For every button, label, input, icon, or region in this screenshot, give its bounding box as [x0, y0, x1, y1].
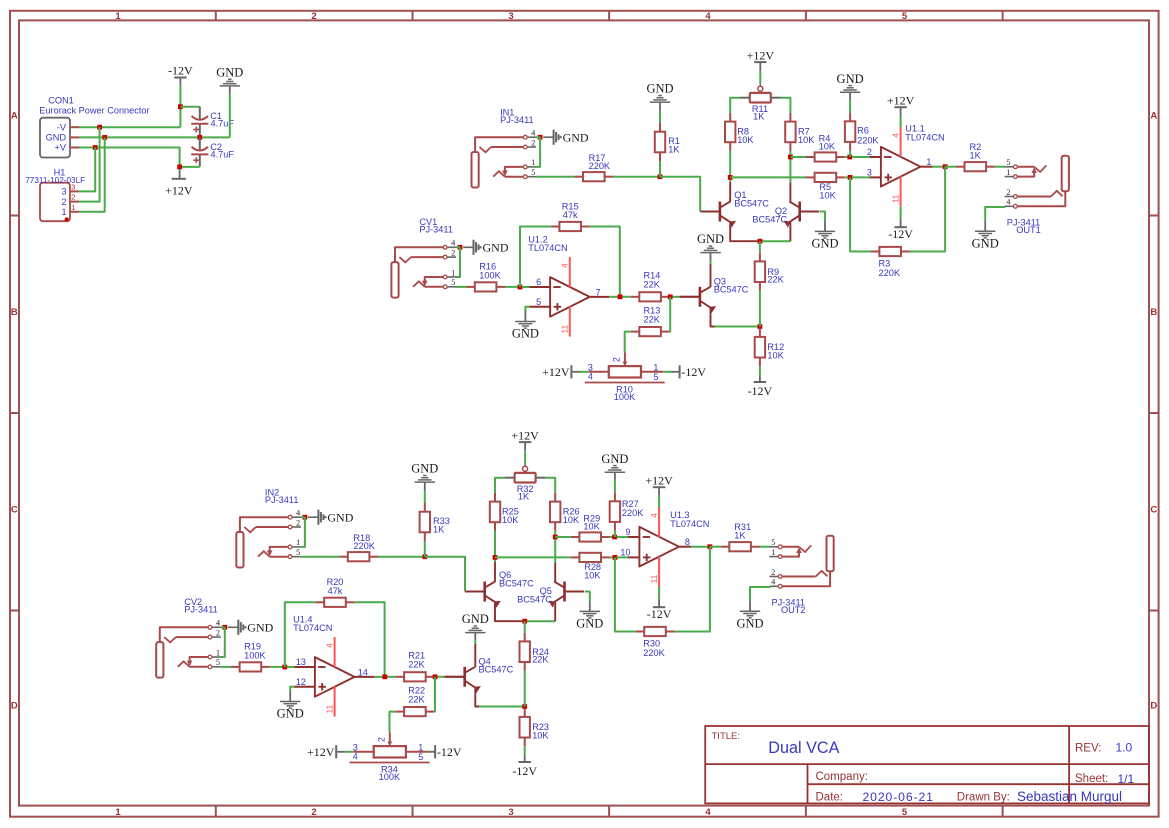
company label: [816, 771, 868, 783]
svg-text:Drawn By:: Drawn By:: [957, 792, 1010, 804]
power +12V left of R34: [307, 745, 345, 759]
wire IN1 pin4 to node: [536, 136, 540, 138]
gnd above R27: [601, 452, 628, 480]
potentiometer R34 100K: [350, 732, 430, 782]
wire U1.1 output net: [933, 166, 945, 168]
svg-text:22K: 22K: [644, 314, 661, 324]
resistor R31 1K: [721, 522, 760, 552]
wire GND to H1 pin1: [79, 137, 105, 211]
date label: [816, 790, 934, 804]
resistor R4 10K: [806, 133, 845, 161]
svg-text:100K: 100K: [479, 271, 501, 281]
resistor R8 10K: [725, 113, 754, 151]
wire U1.3 -12V wire: [658, 586, 660, 599]
svg-text:5: 5: [531, 168, 535, 177]
junction C1/C2 GND node: [197, 135, 202, 140]
svg-text:2: 2: [216, 628, 220, 637]
svg-text:GND: GND: [646, 82, 673, 96]
wire +V to H1 pin3: [79, 148, 95, 192]
gnd IN1: [543, 130, 589, 145]
svg-text:4: 4: [296, 509, 300, 518]
svg-text:REV:: REV:: [1075, 743, 1101, 755]
op-amp U1.1 TL074CN: [867, 124, 945, 207]
junction R21/Q4 node: [433, 674, 438, 679]
Q4 base pin: [444, 676, 464, 678]
wire pin - lead: [617, 536, 628, 538]
resistor R5 10K: [806, 173, 845, 201]
resistor R25 10K: [490, 493, 519, 531]
wire Q3 collector net: [710, 260, 712, 264]
svg-text:1: 1: [71, 203, 75, 212]
resistor R27 220K: [610, 493, 645, 531]
gnd above Q4: [462, 612, 489, 640]
svg-text:-12V: -12V: [748, 384, 773, 398]
svg-text:22K: 22K: [408, 660, 425, 670]
svg-text:Dual VCA: Dual VCA: [768, 739, 839, 757]
svg-text:22K: 22K: [408, 694, 425, 704]
power -12V below U1.3: [647, 599, 672, 621]
svg-text:6: 6: [536, 277, 541, 287]
wire C2 to +12V node: [180, 166, 200, 168]
op-amp U1.2 TL074CN: [528, 234, 609, 336]
junction R7/R4 node: [788, 155, 793, 160]
Q5 collector pin: [554, 563, 556, 582]
svg-text:5: 5: [536, 297, 541, 307]
svg-text:GND: GND: [483, 241, 509, 255]
svg-text:-12V: -12V: [888, 227, 913, 241]
svg-text:TL074CN: TL074CN: [528, 243, 567, 253]
rev label: [1075, 741, 1133, 755]
wire emitter rail: [758, 240, 791, 242]
resistor R26 10K: [550, 493, 580, 531]
wire R11 wiper wire: [759, 71, 761, 83]
wire feedback to pin +: [615, 557, 636, 631]
gnd symbol top-left: [216, 66, 243, 94]
wire R4 left: [790, 156, 806, 158]
Q6 emitter pin: [495, 602, 522, 621]
svg-text:-12V: -12V: [168, 64, 193, 78]
junction output node: [943, 164, 948, 169]
power +12V above U1.3: [645, 473, 673, 495]
svg-text:1: 1: [451, 268, 455, 277]
svg-text:2: 2: [61, 197, 66, 207]
power +12V below C2: [165, 172, 193, 198]
svg-text:2: 2: [71, 193, 75, 202]
wire R28 right: [610, 556, 615, 558]
wire R10 pin3 wire: [580, 371, 588, 373]
svg-text:GND: GND: [46, 133, 67, 143]
wire U1.4 out to R21: [385, 676, 396, 678]
trimmer R11 1K: [740, 84, 780, 122]
svg-text:1K: 1K: [970, 150, 982, 160]
svg-text:100K: 100K: [379, 772, 401, 782]
wire R9 top: [759, 241, 761, 253]
wire R32 wiper wire: [524, 451, 526, 463]
svg-text:1: 1: [926, 157, 931, 167]
wire pin - lead: [852, 156, 870, 158]
wire Q3 emitter net: [715, 326, 760, 328]
svg-text:GND: GND: [837, 72, 864, 86]
svg-text:3: 3: [867, 168, 872, 178]
svg-text:TL074CN: TL074CN: [293, 623, 332, 633]
svg-text:5: 5: [1006, 158, 1010, 167]
svg-text:-12V: -12V: [512, 764, 537, 778]
trimmer R32 1K: [505, 464, 545, 502]
power +12V left of R10: [542, 365, 580, 379]
svg-text:OUT1: OUT1: [1016, 225, 1041, 235]
resistor R23 10K: [520, 708, 550, 746]
junction R25/base node: [493, 555, 498, 560]
svg-text:14: 14: [358, 667, 368, 677]
wire Q5 collector net: [554, 537, 556, 563]
wire U1.1 -12V wire: [900, 206, 902, 219]
wire -12V to -V rail: [179, 86, 181, 128]
svg-text:1: 1: [216, 648, 220, 657]
resistor R2 1K: [956, 142, 995, 172]
svg-text:BC547C: BC547C: [479, 665, 514, 675]
wire -V to H1 pin2: [79, 127, 100, 201]
svg-text:4: 4: [353, 751, 358, 761]
Q6 collector pin: [494, 562, 496, 582]
svg-text:100K: 100K: [614, 392, 636, 402]
svg-text:1K: 1K: [518, 492, 530, 502]
wire R26 top: [545, 478, 555, 493]
svg-text:10K: 10K: [502, 515, 519, 525]
svg-text:5: 5: [771, 538, 775, 547]
junction GND branch node: [102, 135, 107, 140]
wire R20 left loop: [285, 602, 316, 667]
wire GND drop: [229, 94, 231, 138]
wire input node to Q6 base: [425, 557, 465, 592]
gnd at Q2 base: [811, 222, 838, 251]
wire CV2 pin1 net: [221, 627, 225, 657]
svg-text:22K: 22K: [767, 275, 784, 285]
resistor R22 22K: [396, 686, 435, 717]
header H1 77311-102-03LF: [25, 167, 85, 221]
gnd below U1.4: [277, 691, 304, 721]
svg-text:4: 4: [216, 619, 220, 628]
junction +V branch node: [93, 145, 98, 150]
junction -12V/C1 node: [178, 104, 183, 109]
svg-text:220K: 220K: [589, 161, 611, 171]
junction R14/Q3 node: [668, 294, 673, 299]
wire R6 bottom wire: [849, 151, 851, 157]
svg-text:10: 10: [620, 548, 630, 558]
wire emitter rail: [522, 620, 555, 622]
resistor R33 1K: [420, 503, 450, 541]
capacitor C2 4.7uF: [191, 137, 234, 166]
svg-text:2: 2: [531, 138, 535, 147]
gnd at Q5 base: [576, 602, 603, 631]
Q4 collector pin: [474, 644, 476, 667]
connector CV2 PJ-3411: [156, 597, 221, 678]
wire R14 node drop: [669, 297, 672, 332]
svg-text:10K: 10K: [584, 570, 601, 580]
svg-text:GND: GND: [277, 707, 304, 721]
Q2 emitter pin: [789, 222, 791, 241]
svg-text:4: 4: [531, 129, 535, 138]
junction C2/+12V node: [177, 165, 182, 170]
wire R18 to input node: [378, 556, 425, 558]
wire Q4 emitter net: [479, 706, 524, 708]
svg-text:Sebastian Murgul: Sebastian Murgul: [1017, 789, 1122, 804]
resistor R13 22K: [631, 306, 670, 337]
wire IN1 tip to R17: [536, 176, 574, 178]
wire feedback to pin +: [850, 177, 871, 251]
svg-text:1: 1: [531, 158, 535, 167]
svg-text:C: C: [1150, 504, 1157, 515]
resistor R17 220K: [574, 153, 613, 181]
resistor R1 1K: [655, 123, 681, 161]
svg-text:4: 4: [561, 263, 570, 268]
wire R29 left: [555, 536, 571, 538]
svg-text:5: 5: [902, 11, 908, 22]
svg-text:5: 5: [296, 548, 300, 557]
svg-text:1: 1: [771, 548, 775, 557]
svg-text:11: 11: [650, 574, 659, 583]
title block grid: [705, 726, 1149, 803]
svg-text:2: 2: [612, 357, 622, 362]
resistor R7 10K: [785, 113, 815, 151]
connector IN1 PJ-3411: [472, 108, 537, 188]
wire Q4 collector net: [474, 640, 476, 644]
svg-text:+12V: +12V: [307, 745, 335, 759]
svg-text:10K: 10K: [798, 135, 815, 145]
svg-text:13: 13: [296, 657, 306, 667]
Q2 collector pin: [789, 183, 791, 202]
svg-text:+12V: +12V: [747, 48, 775, 62]
gnd above R6: [837, 72, 864, 100]
junction -V branch node: [97, 125, 102, 130]
svg-text:12: 12: [296, 677, 306, 687]
svg-text:2: 2: [377, 737, 387, 742]
wire pin + lead: [852, 176, 870, 178]
op-amp U1.4 TL074CN: [293, 614, 374, 716]
svg-text:100K: 100K: [244, 651, 266, 661]
Q5 emitter pin: [554, 602, 556, 621]
wire Q6 collector net: [494, 557, 496, 562]
wire IN2 pin1 net: [301, 517, 305, 547]
gnd IN2: [308, 510, 354, 525]
svg-text:3: 3: [508, 11, 513, 22]
wire U1.3 +12V wire: [658, 496, 660, 508]
wire R6 top wire: [849, 100, 851, 113]
title label: [712, 731, 741, 742]
svg-text:R6: R6: [857, 126, 869, 136]
connector CV1 PJ-3411: [391, 217, 456, 298]
power -12V right of R34: [427, 745, 462, 759]
svg-text:1/1: 1/1: [1118, 772, 1135, 786]
junction emitter rail node: [758, 239, 763, 244]
svg-text:PJ-3411: PJ-3411: [184, 604, 218, 614]
wire CON1 GND net: [79, 136, 230, 138]
wire R29 right: [610, 536, 615, 538]
Q5 base wire: [585, 592, 590, 602]
junction R1 node: [658, 174, 663, 179]
wire R31 right: [760, 546, 771, 548]
gnd CV2: [228, 620, 274, 635]
svg-text:47k: 47k: [328, 586, 343, 596]
connector CON1 Eurorack Power Connector: [39, 96, 149, 158]
svg-text:A: A: [11, 111, 18, 122]
svg-text:2: 2: [451, 248, 455, 257]
wire R33 top wire: [424, 491, 426, 503]
wire R7 bottom: [789, 151, 791, 157]
svg-text:4.7uF: 4.7uF: [211, 149, 235, 159]
wire R24 bottom: [524, 671, 526, 707]
svg-text:2: 2: [771, 568, 775, 577]
junction pin6 node: [518, 285, 523, 290]
Q3 collector pin: [710, 264, 712, 287]
power -12V below U1.1: [888, 219, 913, 241]
svg-text:1K: 1K: [668, 144, 680, 154]
svg-text:1: 1: [115, 11, 121, 22]
wire base node to R28: [495, 556, 571, 558]
junction R6 node: [847, 155, 852, 160]
svg-text:TL074CN: TL074CN: [670, 519, 709, 529]
wire R1 bottom wire: [659, 161, 661, 177]
svg-text:11: 11: [561, 324, 570, 333]
wire CV1 pin1 net: [456, 247, 460, 277]
resistor R20 47k: [316, 577, 355, 607]
wire R26 bottom: [554, 531, 556, 537]
wire Q2 collector net: [789, 157, 791, 183]
Q3 emitter pin: [711, 308, 715, 327]
resistor R16 100K: [466, 262, 505, 292]
svg-text:10K: 10K: [767, 350, 784, 360]
svg-text:220K: 220K: [622, 508, 644, 518]
title Dual VCA: [768, 739, 839, 757]
svg-text:GND: GND: [972, 237, 999, 251]
svg-text:Date:: Date:: [816, 792, 844, 804]
svg-text:5: 5: [418, 752, 423, 762]
power -12V right of R10: [671, 365, 706, 379]
svg-text:220K: 220K: [353, 541, 375, 551]
svg-text:4: 4: [705, 11, 711, 22]
wire R10 pin1 wire: [664, 371, 671, 373]
Q3 base pin: [679, 296, 699, 298]
svg-text:D: D: [11, 701, 18, 712]
svg-text:4: 4: [705, 807, 711, 818]
svg-text:BC547C: BC547C: [752, 214, 787, 224]
svg-text:10K: 10K: [737, 135, 754, 145]
svg-text:1: 1: [115, 807, 121, 818]
wire pin - lead b: [522, 286, 530, 288]
svg-text:-12V: -12V: [681, 365, 706, 379]
wire R1 top wire: [659, 111, 661, 123]
svg-text:B: B: [11, 307, 18, 318]
wire R7 top: [780, 98, 790, 113]
svg-text:1K: 1K: [753, 112, 765, 122]
svg-text:+V: +V: [55, 143, 67, 153]
svg-text:1.0: 1.0: [1116, 741, 1133, 755]
resistor R3 220K: [871, 247, 910, 278]
gnd above Q3: [697, 232, 724, 260]
wire R27 bottom wire: [614, 531, 616, 537]
transistor Q3 BC547C: [680, 276, 748, 313]
svg-text:GND: GND: [216, 66, 243, 80]
wire R2 left: [945, 166, 956, 168]
svg-text:220K: 220K: [643, 648, 665, 658]
U1.4 + gnd wire: [290, 687, 294, 691]
junction R27 node: [612, 535, 617, 540]
wire feedback drop: [909, 167, 945, 252]
svg-text:GND: GND: [512, 327, 539, 341]
svg-text:C: C: [11, 504, 18, 515]
wire Q1 collector net: [729, 177, 731, 182]
wire R31 left: [710, 546, 721, 548]
svg-text:GND: GND: [327, 511, 353, 525]
gnd above R1: [646, 82, 673, 111]
svg-text:4: 4: [891, 133, 900, 138]
resistor R12 10K: [755, 328, 785, 366]
svg-text:BC547C: BC547C: [714, 285, 749, 295]
power -12V below R23: [512, 756, 537, 778]
gnd below OUT2: [736, 601, 763, 630]
resistor R18 220K: [339, 533, 378, 561]
svg-text:Sheet:: Sheet:: [1075, 773, 1108, 785]
svg-text:4: 4: [451, 239, 455, 248]
wire R33 bottom wire: [424, 541, 426, 557]
wire R9 bottom: [759, 291, 761, 327]
svg-text:2: 2: [1006, 188, 1010, 197]
junction R8/base node: [728, 175, 733, 180]
svg-text:220K: 220K: [857, 136, 879, 146]
svg-text:1: 1: [1006, 168, 1010, 177]
junction pin6 node: [282, 665, 287, 670]
connector OUT1 PJ-3411: [1005, 156, 1069, 236]
wire -12V node to C1: [180, 106, 199, 108]
wire R34 pin3 wire: [345, 751, 353, 753]
svg-text:220K: 220K: [879, 268, 901, 278]
sheet label: [1075, 772, 1135, 786]
svg-text:2: 2: [867, 147, 872, 157]
svg-text:10K: 10K: [819, 142, 836, 152]
wire CON1 +V net: [79, 148, 180, 172]
svg-text:GND: GND: [247, 621, 273, 635]
svg-text:-12V: -12V: [647, 607, 672, 621]
svg-text:4: 4: [325, 643, 334, 648]
wire CV2 tip to R19: [221, 666, 231, 668]
svg-text:A: A: [1150, 111, 1157, 122]
svg-text:1: 1: [61, 207, 66, 217]
wire R25 top: [495, 478, 505, 493]
wire IN1 pin1 net: [536, 137, 540, 167]
svg-text:GND: GND: [576, 617, 603, 631]
potentiometer R10 100K: [585, 352, 665, 402]
svg-text:10K: 10K: [819, 190, 836, 200]
svg-text:OUT2: OUT2: [781, 605, 806, 615]
svg-text:8: 8: [685, 537, 690, 547]
wire R15 right loop: [590, 227, 620, 297]
svg-text:GND: GND: [736, 617, 763, 631]
wire R23 bottom: [524, 746, 526, 756]
Q2 base wire: [820, 212, 825, 222]
svg-text:3: 3: [71, 182, 75, 191]
svg-text:D: D: [1150, 701, 1157, 712]
transistor Q2 BC547C: [752, 202, 819, 228]
junction IN2 gnd node: [303, 515, 308, 520]
junction R33 node: [422, 554, 427, 559]
svg-text:PJ-3411: PJ-3411: [500, 115, 534, 125]
svg-text:1: 1: [296, 538, 300, 547]
wire CON1 -V net: [79, 126, 180, 128]
svg-text:GND: GND: [462, 612, 489, 626]
svg-text:+12V: +12V: [542, 365, 570, 379]
svg-text:5: 5: [902, 807, 908, 818]
svg-text:+12V: +12V: [645, 473, 673, 487]
svg-text:5: 5: [216, 658, 220, 667]
